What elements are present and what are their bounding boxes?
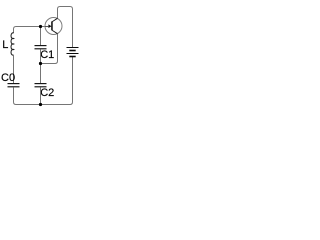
transistor Q1 gate arrow — [48, 24, 51, 28]
svg-text:C1: C1 — [40, 49, 54, 61]
transistor Q1 drain lead diagonal — [52, 18, 57, 21]
capacitor C2 — [35, 84, 47, 87]
wire: inductor bottom down to C0 — [13, 55, 15, 83]
transistor Q1 gate lead — [45, 26, 48, 28]
node A junction dot at gate — [39, 25, 42, 28]
inductor L1 coil — [11, 33, 14, 55]
wire: node B right and up to transistor source — [41, 34, 58, 64]
transistor Q1 channel bar — [51, 21, 53, 30]
battery B1 long plate lower — [67, 53, 79, 55]
capacitor C0 — [8, 84, 20, 87]
svg-text:C0: C0 — [1, 72, 15, 84]
transistor Q1 source lead diagonal — [52, 30, 57, 33]
battery B1 short plate upper — [69, 50, 75, 52]
node C junction dot on bottom rail — [39, 103, 42, 106]
node B junction dot between C1 and C2 — [39, 62, 42, 65]
svg-text:C2: C2 — [40, 87, 54, 99]
svg-text:L: L — [2, 39, 8, 51]
wire: C2 bottom to bottom rail — [40, 87, 42, 104]
wire: gate node down to C1 — [40, 27, 42, 46]
wire: C0 bottom, bottom rail, up right side to battery minus — [14, 57, 73, 105]
wire: C1 bottom through node B to C2 — [40, 49, 42, 83]
capacitor C1 — [35, 46, 47, 49]
wire: top-left corner from inductor top up and right to gate node — [14, 27, 46, 34]
transistor Q1 body circle — [45, 18, 62, 35]
battery B1 long plate top — [67, 47, 79, 49]
battery B1 short plate bottom — [69, 56, 75, 58]
wire: drain up, top rail, down right side to battery plus — [58, 7, 73, 48]
